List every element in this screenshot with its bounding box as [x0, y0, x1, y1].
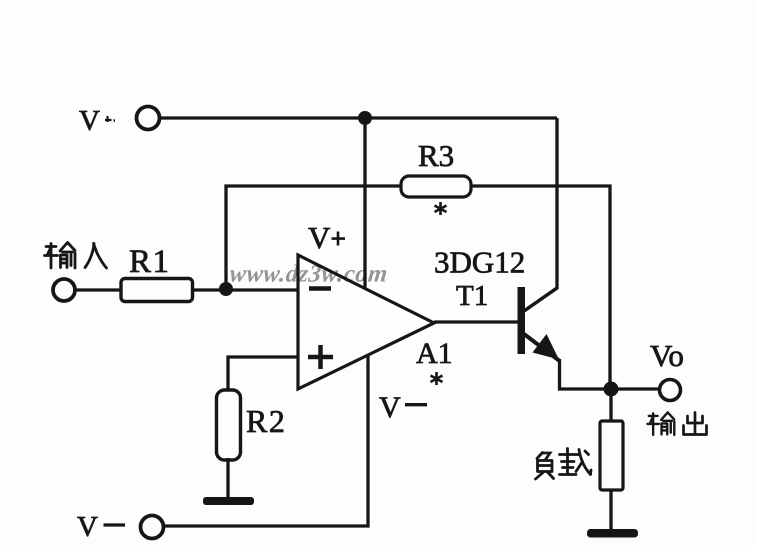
resistor R1	[121, 279, 193, 302]
ground (R2)	[203, 497, 254, 505]
svg-text:R2: R2	[246, 403, 286, 439]
svg-text:V: V	[379, 391, 401, 424]
junction dot (V+ pin tap)	[358, 111, 372, 125]
label 输入 (input)	[45, 243, 107, 269]
transistor T1 emitter arrow	[533, 334, 560, 360]
svg-text:R1: R1	[129, 244, 171, 280]
wire op-amp output to base	[434, 320, 518, 323]
terminal V-	[141, 516, 164, 539]
resistor R3	[401, 176, 471, 197]
svg-text:3DG12: 3DG12	[434, 245, 525, 280]
svg-text:A1: A1	[416, 337, 453, 370]
value label * (R3)	[435, 202, 447, 215]
terminal input	[53, 279, 75, 301]
junction dot (output node)	[604, 382, 619, 397]
label 输出 (output)	[647, 412, 706, 434]
op-amp inverting - sign	[309, 286, 331, 291]
wire feedback left segment	[226, 186, 401, 289]
svg-text:T1: T1	[456, 280, 488, 312]
ground (load)	[587, 529, 638, 538]
svg-text:V: V	[308, 220, 331, 255]
junction dot (inverting node)	[219, 282, 233, 296]
transistor T1 collector stroke	[524, 288, 557, 311]
wire V- rail to op-amp V- pin	[164, 355, 368, 526]
op-amp A1 triangle	[298, 255, 434, 389]
wire non-inverting input from R2	[228, 357, 298, 390]
wire load top	[609, 389, 612, 421]
value label * (A1)	[431, 372, 443, 385]
op-amp non-inverting + sign	[308, 345, 333, 369]
resistor R2	[217, 390, 241, 460]
terminal V+	[137, 107, 160, 130]
wire emitter to output node	[560, 359, 660, 389]
label 负载 (load)	[536, 449, 592, 480]
wire feedback right segment	[471, 186, 610, 389]
resistor load	[600, 421, 623, 490]
wire R2 to ground	[226, 458, 229, 497]
wire load bottom	[609, 490, 612, 529]
svg-text:Vo: Vo	[650, 338, 684, 373]
wire top rail	[160, 116, 557, 119]
transistor T1 base bar	[518, 287, 526, 354]
wire input to R1	[75, 288, 121, 291]
svg-text:R3: R3	[418, 138, 454, 173]
terminal Vo	[660, 380, 681, 401]
wire R1 to inverting input	[192, 288, 298, 291]
wire collector riser	[524, 118, 557, 311]
wire op-amp V+ pin	[363, 118, 366, 289]
svg-text:V: V	[77, 511, 98, 543]
svg-text:V: V	[79, 105, 100, 137]
transistor T1 emitter stroke	[524, 334, 559, 361]
